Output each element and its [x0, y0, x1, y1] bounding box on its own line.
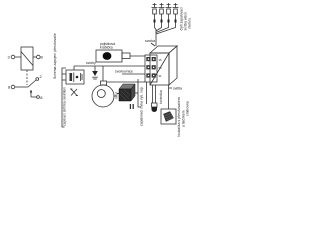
switch S1 common	[8, 85, 28, 90]
terminal strip	[145, 55, 157, 82]
svg-text:motoru: motoru	[188, 18, 192, 29]
mechanical link (dashed)	[26, 70, 28, 85]
spark plugs caption (vertical)	[180, 7, 192, 30]
magneto flywheel	[92, 85, 114, 107]
spark plug 2	[156, 3, 165, 31]
vertical caption: zapinaci skrinka	[63, 87, 67, 126]
svg-text:15: 15	[159, 58, 163, 62]
connector marks below coil	[130, 104, 133, 109]
drop wire to magneto	[102, 66, 104, 81]
svg-text:kontrolka: kontrolka	[159, 90, 163, 104]
left long wire down	[62, 68, 66, 127]
svg-text:svorka: svorka	[145, 39, 155, 43]
svg-text:svorky: svorky	[86, 61, 96, 65]
ignition coil block (dark)	[117, 84, 135, 101]
spark plug 4	[156, 3, 179, 34]
bus wire 1	[74, 66, 145, 70]
terminal row labels	[159, 58, 163, 78]
svg-text:zapínací skříňka osvětlení: zapínací skříňka osvětlení	[63, 87, 67, 126]
svg-text:krabička: krabička	[100, 46, 113, 50]
terminal 3 (left relay pin)	[8, 55, 22, 60]
horn in frame	[161, 109, 176, 124]
switch S1 lower contact with arrow	[30, 90, 43, 101]
label svorky	[86, 61, 96, 65]
breaker box	[66, 70, 84, 84]
twin lead to pilot lamp	[153, 85, 156, 103]
fuse box with grommet	[96, 50, 130, 62]
svg-text:světla: světla	[173, 87, 182, 91]
svg-text:svorkovnice: svorkovnice	[115, 70, 133, 74]
terminal 8 (right relay pin)	[33, 55, 44, 60]
bus wire 2 with label svorkovnice	[115, 70, 147, 104]
svg-text:rotor: rotor	[115, 91, 119, 99]
svg-text:31: 31	[159, 74, 163, 78]
switchbox 3d body	[150, 46, 177, 85]
svg-text:zapalovací cívka vys. nap.: zapalovací cívka vys. nap.	[140, 86, 144, 126]
HT lead bundle	[155, 29, 157, 46]
cam symbol below breaker	[70, 89, 78, 96]
svg-text:Schéma zapojení přerušovače: Schéma zapojení přerušovače	[53, 33, 57, 79]
vertical caption: schema zapojeni prerusovace	[53, 33, 57, 79]
switch S1 arm	[28, 74, 43, 87]
vertical caption right of coil	[140, 86, 144, 126]
label svorka with leader	[145, 39, 155, 46]
svg-text:houkačka s přerušovačem: houkačka s přerušovačem	[177, 97, 181, 137]
magneto right stub	[114, 91, 119, 99]
breaker housing on magneto	[101, 81, 107, 85]
bus wire 3	[107, 81, 145, 83]
pilot lamp	[152, 103, 158, 112]
horn captions (vertical)	[177, 97, 190, 137]
relay K1	[21, 47, 33, 70]
wire from fuse box to terminal strip	[130, 56, 148, 58]
coil right stub	[135, 79, 141, 107]
spark plug 3	[156, 3, 172, 33]
wire down to horn box	[168, 85, 170, 109]
svg-text:směrovka: směrovka	[186, 101, 190, 116]
caption between leads	[159, 90, 163, 104]
fuse box label (2 lines)	[100, 42, 115, 50]
spark plug 1	[152, 3, 158, 30]
svetla stub and label	[169, 87, 182, 91]
capacitor C1	[92, 66, 98, 79]
breaker left wires	[62, 74, 66, 80]
